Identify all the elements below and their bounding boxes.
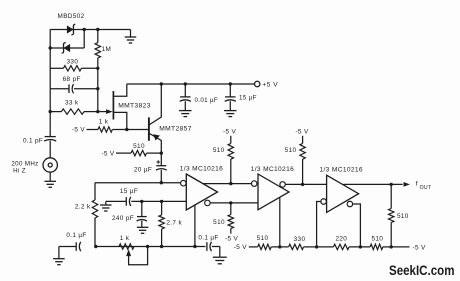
wire - gate3 lower input to bottom rail bbox=[317, 202, 321, 247]
op-amp U1b 1/3 MC10216 bbox=[258, 174, 289, 210]
wire - vertical to 2.2k bbox=[94, 183, 96, 200]
ground - below source bbox=[49, 172, 51, 181]
wire - JFET drain to +5V rail bbox=[113, 84, 126, 96]
svg-text:-5 V: -5 V bbox=[413, 244, 427, 251]
node - 15uF junction on rail bbox=[229, 82, 232, 85]
wire - base lead bbox=[127, 129, 149, 131]
gate 2 input bubble bbox=[251, 181, 257, 187]
capacitor 15 uF decoupling bbox=[229, 84, 231, 97]
node - gate2 tap junction bbox=[278, 245, 281, 248]
transistor Q2 MMT2857 base bar bbox=[148, 117, 150, 140]
node - 33k right junction bbox=[96, 110, 99, 113]
svg-text:0.1 µF: 0.1 µF bbox=[198, 234, 218, 241]
gate 1 complement output bubble bbox=[205, 200, 211, 206]
svg-text:-5 V: -5 V bbox=[223, 129, 237, 136]
node - gate1 lower tap junction bbox=[193, 245, 196, 248]
gate 3 true output wire bbox=[343, 183, 402, 185]
gate 1 complement output wire bbox=[210, 202, 258, 204]
node - 2.7k bottom junction bbox=[160, 245, 163, 248]
terminal +5 V bbox=[255, 81, 260, 86]
capacitor 0.01 uF decoupling bbox=[184, 84, 186, 97]
node - gate3 lower input junction bbox=[315, 245, 318, 248]
gate 2 output bubble bbox=[280, 182, 286, 188]
resistor 2.2 k (vertical) bbox=[92, 200, 97, 218]
svg-text:-5 V: -5 V bbox=[234, 244, 248, 251]
svg-text:1/3 MC10216: 1/3 MC10216 bbox=[180, 165, 223, 172]
resistor 330 (horizontal) bbox=[50, 67, 63, 69]
node - output / 510 junction bbox=[390, 183, 393, 186]
wire - gate lead with arrow into MMT3823 bbox=[98, 111, 109, 113]
wire - signal line into gate 1 bbox=[95, 182, 181, 184]
svg-text:MBD502: MBD502 bbox=[58, 13, 85, 20]
node - 33k left junction bbox=[49, 110, 52, 113]
svg-text:OUT: OUT bbox=[420, 185, 432, 191]
node - left rail / lower diode junction bbox=[49, 46, 52, 49]
wire - bottom right rail bbox=[249, 246, 258, 248]
svg-text:-5 V: -5 V bbox=[101, 151, 115, 158]
svg-text:330: 330 bbox=[294, 236, 306, 243]
ground - below 0.01 uF bbox=[179, 110, 192, 112]
transistor Q1 MMT3823 JFET channel bbox=[112, 91, 114, 120]
svg-text:f: f bbox=[416, 181, 418, 188]
svg-text:1/3 MC10216: 1/3 MC10216 bbox=[319, 167, 362, 174]
svg-text:240 pF: 240 pF bbox=[112, 215, 134, 222]
svg-text:15 µF: 15 µF bbox=[120, 188, 138, 195]
node - JFET source / 1k / base junction bbox=[125, 128, 128, 131]
svg-text:1/3 MC10216: 1/3 MC10216 bbox=[251, 166, 294, 173]
source 200 MHz Hi Z generator bbox=[43, 158, 57, 172]
node - 2.7k junction bbox=[160, 200, 163, 203]
svg-text:MMT2857: MMT2857 bbox=[159, 125, 192, 132]
capacitor 68 pF bbox=[50, 88, 69, 90]
arrow - output terminal bbox=[404, 182, 411, 187]
svg-text:33 k: 33 k bbox=[65, 99, 79, 106]
resistor 2.7 k (vertical) bbox=[161, 201, 163, 215]
resistor 510 (bottom rail right) bbox=[370, 244, 383, 249]
wire - lower diode branch bbox=[50, 47, 84, 49]
node - 0.01uF junction on rail bbox=[184, 82, 187, 85]
resistor 330 (bottom rail) bbox=[289, 244, 304, 249]
diode D1b MBD502 (pointing left) bbox=[64, 44, 71, 52]
wire - gate1 bottom slant tap bbox=[194, 205, 196, 246]
resistor 1 k potentiometer (horizontal) bbox=[119, 244, 134, 249]
wire - gate2 bottom slant tap down bbox=[279, 198, 281, 247]
svg-text:0.1 pF: 0.1 pF bbox=[23, 137, 43, 144]
resistor 220 (bottom rail) bbox=[333, 244, 349, 249]
node - pot wiper junction bbox=[146, 245, 149, 248]
node - gate2 output / 510 junction bbox=[301, 183, 304, 186]
svg-text:+5 V: +5 V bbox=[263, 82, 279, 89]
resistor 510 pulldown (gate1 out, vertical) bbox=[230, 142, 232, 144]
resistor 510 (emitter, horizontal) bbox=[116, 152, 131, 154]
wire - emitter with arrow bbox=[150, 134, 162, 154]
svg-text:200 MHz: 200 MHz bbox=[11, 160, 38, 167]
svg-text:Hi Z: Hi Z bbox=[13, 168, 26, 175]
svg-text:15 µF: 15 µF bbox=[239, 94, 257, 101]
ground - bottom left bbox=[53, 258, 65, 260]
node - gate3 comp output junction bbox=[359, 245, 362, 248]
svg-text:510: 510 bbox=[133, 143, 145, 150]
svg-text:510: 510 bbox=[397, 213, 409, 220]
capacitor 240 pF bbox=[141, 201, 143, 216]
wire - bottom feedback rail bbox=[95, 246, 206, 248]
svg-text:68 pF: 68 pF bbox=[63, 76, 81, 83]
diode D1a MBD502 (pointing right) bbox=[67, 25, 74, 33]
wire - left rail vertical bbox=[49, 30, 51, 137]
svg-text:-5 V: -5 V bbox=[72, 127, 86, 134]
svg-text:2.7 k: 2.7 k bbox=[166, 220, 182, 227]
svg-text:510: 510 bbox=[371, 236, 383, 243]
node - 20uF / signal line junction bbox=[160, 181, 163, 184]
resistor 33 k (horizontal) bbox=[50, 111, 61, 113]
node - 68pF junction bbox=[96, 87, 99, 90]
svg-text:1 k: 1 k bbox=[99, 119, 109, 126]
resistor 510 pulldown (gate2 out, vertical) bbox=[302, 136, 304, 144]
op-amp U1a 1/3 MC10216 bbox=[186, 174, 217, 210]
svg-text:510: 510 bbox=[257, 235, 269, 242]
capacitor 15 uF (bias) bbox=[125, 197, 127, 206]
wiper arrow of 1 k pot bbox=[126, 249, 131, 256]
wire - JFET source down to 1k junction bbox=[113, 112, 126, 129]
gate 3 lower input bubble bbox=[321, 199, 327, 205]
resistor 1 k (horizontal) bbox=[87, 129, 99, 131]
wire - collector to +5V rail bbox=[150, 84, 162, 125]
gate 3 complement output bubble bbox=[347, 201, 353, 207]
gate 2 output wire bbox=[285, 183, 326, 185]
wire - to ground bottom left bbox=[59, 246, 76, 248]
svg-text:1 k: 1 k bbox=[120, 235, 130, 242]
wire - to -5V right bbox=[391, 246, 409, 248]
svg-text:MMT3823: MMT3823 bbox=[118, 102, 151, 109]
wire - top diode line from left rail to ground bbox=[50, 29, 130, 31]
svg-text:220: 220 bbox=[335, 236, 347, 243]
wire - bias line bbox=[106, 200, 127, 202]
resistor 1M (vertical) bbox=[97, 30, 99, 43]
wire - +5V supply rail bbox=[127, 83, 255, 85]
ground - bias line left bbox=[105, 201, 107, 204]
op-amp U1c 1/3 MC10216 bbox=[327, 175, 359, 212]
svg-text:20 µF: 20 µF bbox=[134, 167, 152, 174]
capacitor 20 uF coupling (polarized) bbox=[160, 153, 162, 165]
svg-text:510: 510 bbox=[213, 147, 225, 154]
gate 1 true output wire bbox=[203, 183, 252, 185]
gate 1 input bubble bbox=[181, 180, 187, 186]
node - 330/1M junction bbox=[96, 67, 99, 70]
svg-text:SeekIC.com: SeekIC.com bbox=[389, 263, 455, 278]
node - comp output / 510 junction bbox=[229, 201, 232, 204]
svg-text:0.1 µF: 0.1 µF bbox=[66, 232, 86, 239]
svg-text:510: 510 bbox=[213, 219, 225, 226]
resistor 510 (bottom left of rail) bbox=[258, 244, 272, 249]
node - collector junction on rail bbox=[160, 82, 163, 85]
svg-text:0.01 µF: 0.01 µF bbox=[195, 97, 219, 104]
ground - top right of diode pair bbox=[130, 30, 132, 37]
svg-text:1M: 1M bbox=[102, 46, 112, 53]
resistor 510 output pulldown (vertical) bbox=[390, 184, 392, 208]
svg-text:-5 V: -5 V bbox=[225, 236, 239, 243]
node - emitter/510/20uF junction bbox=[160, 151, 163, 154]
capacitor 0.1 uF (bottom left) bbox=[75, 242, 77, 251]
wire - cap to source bbox=[49, 141, 51, 158]
svg-text:510: 510 bbox=[285, 147, 297, 154]
node - output pulldown bottom junction bbox=[390, 245, 393, 248]
resistor 510 pulldown (comp, vertical) bbox=[230, 203, 232, 215]
node - junction diode pair right bbox=[83, 28, 86, 31]
capacitor 0.1 uF (bottom middle) bbox=[206, 242, 208, 251]
node - 240pF junction bbox=[140, 200, 143, 203]
capacitor 0.1 pF input coupling bbox=[45, 136, 56, 138]
ground - bottom middle bbox=[213, 256, 227, 258]
ground - below 240 pF bbox=[137, 226, 149, 228]
node - 0.1uF/2.2k junction bottom left bbox=[94, 245, 97, 248]
svg-text:2.2 k: 2.2 k bbox=[75, 203, 91, 210]
svg-text:330: 330 bbox=[67, 58, 79, 65]
node - junction 1M top bbox=[96, 28, 99, 31]
node - gate1 output / 510 junction bbox=[229, 182, 232, 185]
ground - below 15 uF bbox=[224, 110, 237, 112]
svg-text:-5 V: -5 V bbox=[295, 129, 309, 136]
wire - gate3 complement output down bbox=[353, 204, 361, 247]
